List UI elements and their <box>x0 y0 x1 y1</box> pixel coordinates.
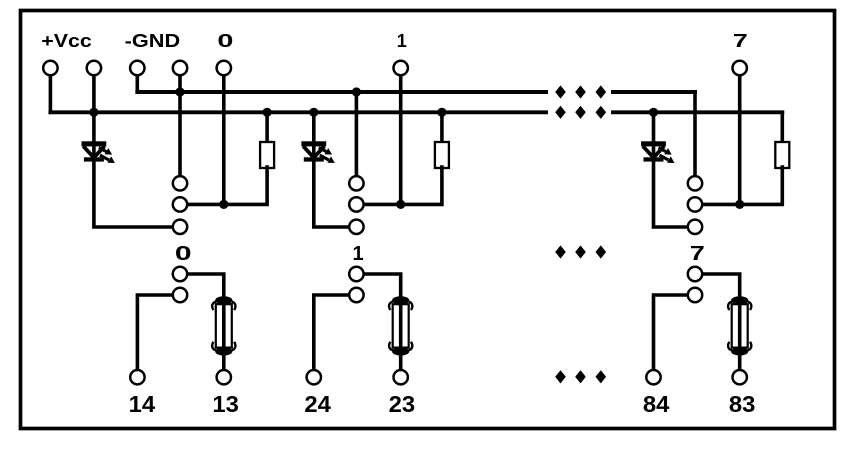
resistor R1 <box>435 142 449 168</box>
coil pin 3 ch0 <box>173 220 187 234</box>
junction input 0 with contact row <box>219 200 228 209</box>
svg-text:14: 14 <box>129 391 156 417</box>
wire contact pin A ch0 to fuse F0 <box>188 274 224 300</box>
contact pin B ch0 <box>173 288 187 302</box>
wire fuse F1 to terminal 23 <box>399 351 403 370</box>
junction LED D1 anode on +Vcc bus <box>309 108 318 117</box>
terminal 13 <box>217 370 231 384</box>
wire contact pin B ch7 to terminal 84 <box>654 295 688 370</box>
ellipsis diamond <box>596 370 607 383</box>
wire +Vcc bus to resistor R0 <box>265 112 269 143</box>
ellipsis diamond <box>555 85 566 98</box>
fuse F7 <box>728 296 751 355</box>
terminal 24 <box>307 370 321 384</box>
svg-text:0: 0 <box>175 243 192 265</box>
LED D1 channel 1 <box>301 141 334 163</box>
ellipsis diamond <box>555 370 566 383</box>
wire -GND bus corner to coil ch7 <box>693 92 697 175</box>
svg-text:+Vcc: +Vcc <box>41 31 92 51</box>
svg-text:24: 24 <box>304 391 331 417</box>
contact pin B ch7 <box>688 288 702 302</box>
wire contact pin A ch1 to fuse F1 <box>364 274 401 300</box>
coil pin 1 ch1 <box>349 176 363 190</box>
wire bus -GND left segment <box>137 90 546 94</box>
junction resistor R0 on +Vcc bus <box>263 108 272 117</box>
junction LED D7 anode on +Vcc bus <box>649 108 658 117</box>
svg-text:83: 83 <box>729 391 756 417</box>
wire fuse F0 to terminal 13 <box>222 351 226 370</box>
coil pin 2 ch0 <box>173 197 187 211</box>
contact pin A ch7 <box>688 267 702 281</box>
ellipsis diamond <box>596 85 607 98</box>
coil pin 1 ch7 <box>688 176 702 190</box>
ellipsis diamond <box>575 106 586 119</box>
coil pin 2 ch1 <box>349 197 363 211</box>
junction input 1 with contact row <box>396 200 405 209</box>
wire bus -GND right segment <box>613 90 695 94</box>
svg-text:0: 0 <box>217 31 233 51</box>
wire contact pin B ch0 to terminal 14 <box>137 295 172 370</box>
terminal -GND b <box>173 61 187 75</box>
fuse F0 <box>212 296 235 355</box>
contact pin A ch0 <box>173 267 187 281</box>
wire -GND terminal 1 to -GND bus <box>136 76 140 92</box>
wire resistor R7 to coil pin 2 <box>703 167 783 204</box>
LED D0 channel 0 <box>82 141 115 163</box>
terminal +Vcc a <box>43 61 57 75</box>
ellipsis diamond <box>555 106 566 119</box>
wire bus +Vcc right segment <box>613 110 782 114</box>
coil pin 1 ch0 <box>173 176 187 190</box>
svg-text:-GND: -GND <box>125 31 181 51</box>
wire contact pin B ch1 to terminal 24 <box>314 295 349 370</box>
resistor R0 <box>260 142 274 168</box>
wire input 0 terminal down to contact node <box>222 76 226 205</box>
ellipsis diamond <box>596 245 607 258</box>
wire +Vcc bus through LED D7 to coil pin 3 <box>654 112 688 227</box>
terminal -GND a <box>130 61 144 75</box>
wire -GND terminal b to coil ch0 <box>178 76 182 175</box>
wire +Vcc bus through LED D1 to coil pin 3 <box>314 112 349 227</box>
contact pin A ch1 <box>349 267 363 281</box>
LED D7 channel 7 <box>641 141 674 163</box>
wire +Vcc terminal 2 through LED D0 to coil pin 3 <box>94 76 172 227</box>
wire bus +Vcc left segment <box>50 110 546 114</box>
ellipsis diamond <box>575 370 586 383</box>
resistor R7 <box>775 142 789 168</box>
wire resistor R0 to coil pin 2 <box>188 167 267 204</box>
wire -GND bus to coil ch1 <box>355 92 359 175</box>
terminal input 0 <box>217 61 231 75</box>
ellipsis diamond <box>555 245 566 258</box>
svg-text:84: 84 <box>643 391 670 417</box>
wire +Vcc bus to resistor R1 <box>440 112 444 143</box>
terminal 83 <box>733 370 747 384</box>
ellipsis diamond <box>575 85 586 98</box>
ellipsis diamond <box>575 245 586 258</box>
wire contact pin A ch7 to fuse F7 <box>703 274 740 300</box>
junction input 7 with contact row <box>735 200 744 209</box>
ellipsis diamond <box>596 106 607 119</box>
fuse F1 <box>389 296 412 355</box>
wire +Vcc terminal 1 to +Vcc bus <box>49 76 53 113</box>
contact pin B ch1 <box>349 288 363 302</box>
wire input 7 terminal down to contact node <box>738 76 742 205</box>
svg-text:1: 1 <box>353 243 364 265</box>
coil pin 2 ch7 <box>688 197 702 211</box>
svg-text:7: 7 <box>690 243 705 265</box>
terminal 23 <box>394 370 408 384</box>
terminal 84 <box>646 370 660 384</box>
wire input 1 terminal down to contact node <box>399 76 403 205</box>
terminal input 1 <box>394 61 408 75</box>
terminal 14 <box>130 370 144 384</box>
terminal input 7 <box>733 61 747 75</box>
svg-text:1: 1 <box>397 31 407 51</box>
coil pin 3 ch7 <box>688 220 702 234</box>
wire fuse F7 to terminal 83 <box>738 351 742 370</box>
junction coil ch1 on -GND bus <box>352 87 361 96</box>
terminal +Vcc b <box>87 61 101 75</box>
svg-text:23: 23 <box>389 391 416 417</box>
coil pin 3 ch1 <box>349 220 363 234</box>
svg-text:7: 7 <box>733 31 748 51</box>
svg-text:13: 13 <box>212 391 239 417</box>
junction LED D0 anode on +Vcc bus <box>89 108 98 117</box>
junction coil ch0 on -GND bus <box>175 87 184 96</box>
wire resistor R1 to coil pin 2 <box>364 167 442 204</box>
wire +Vcc bus corner to resistor R7 <box>780 112 784 143</box>
junction resistor R1 on +Vcc bus <box>437 108 446 117</box>
